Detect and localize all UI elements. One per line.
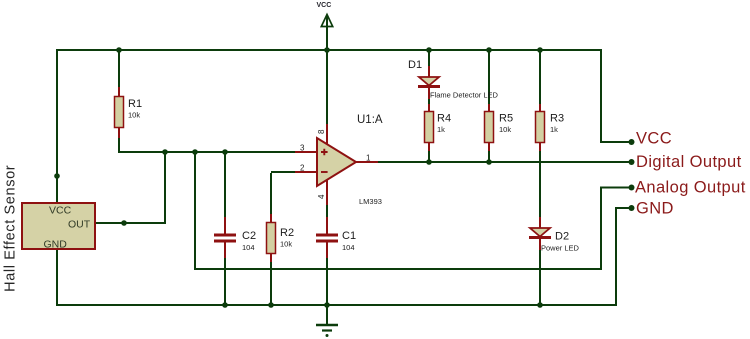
op-amp U1 pin8 lead [326, 124, 328, 150]
svg-text:OUT: OUT [68, 219, 91, 231]
junction node R2/bottom rail [268, 302, 274, 308]
op-amp U1 pin3 stub [295, 151, 318, 153]
svg-text:VCC: VCC [636, 130, 672, 148]
svg-text:D1: D1 [408, 59, 422, 71]
svg-text:Power LED: Power LED [541, 244, 580, 253]
junction node C2/pin3 rail [222, 149, 228, 155]
junction node R1/top rail [116, 47, 122, 53]
junction node C1-gnd/bottom rail [324, 302, 330, 308]
svg-text:R3: R3 [550, 113, 564, 125]
wire ground stem [326, 305, 328, 325]
svg-text:3: 3 [300, 144, 305, 153]
op-amp U1:A body [317, 114, 383, 206]
capacitor C1 [316, 217, 356, 258]
wire R5 bottom to digital run [488, 150, 490, 162]
junction node D1/top rail [426, 47, 432, 53]
junction node OUT riser/pin3 rail [162, 149, 168, 155]
svg-text:C1: C1 [342, 230, 356, 242]
svg-text:1k: 1k [550, 125, 558, 134]
wire D1 cathode to R4 [428, 97, 430, 106]
terminal node Analog Output [629, 185, 635, 191]
op-amp U1 pin1 lead [356, 161, 378, 163]
wire vcc symbol stem [326, 16, 328, 51]
svg-text:GND: GND [636, 200, 674, 218]
wire bottom rail [56, 304, 616, 306]
svg-text:LM393: LM393 [359, 197, 382, 206]
svg-text:8: 8 [317, 129, 326, 134]
wire C1 bottom to rail [326, 257, 328, 305]
capacitor C2 [214, 217, 256, 258]
terminal node Digital Output [629, 159, 635, 165]
junction node C2/bottom rail [222, 302, 228, 308]
ground [316, 325, 338, 337]
wire C2 bottom to rail [224, 257, 226, 305]
resistor R3 [536, 104, 565, 151]
junction node R5/top rail [486, 47, 492, 53]
wire D2 cathode to bottom rail [539, 249, 541, 305]
wire analog leg up to terminal [600, 187, 631, 270]
svg-text:Hall Effect Sensor: Hall Effect Sensor [3, 165, 19, 292]
wire R1 top branch [118, 50, 120, 89]
svg-text:C2: C2 [242, 230, 256, 242]
wire opamp pin4 to C1 [326, 204, 328, 220]
svg-text:4: 4 [317, 194, 326, 199]
wire C2 top from pin3 rail [224, 152, 226, 220]
wire D1 top branch [428, 50, 430, 68]
terminal node VCC [629, 139, 635, 145]
svg-text:1: 1 [366, 154, 371, 163]
op-amp U1 pin4 lead [326, 176, 328, 205]
svg-text:D2: D2 [555, 231, 569, 243]
svg-text:R2: R2 [280, 227, 294, 239]
wire opamp pin8 from rail [326, 50, 328, 125]
wire mid riser pin3 to analog run [194, 152, 601, 269]
junction node R5/digital run [486, 159, 492, 165]
svg-text:104: 104 [342, 243, 355, 252]
wire R2 bottom to rail [270, 261, 272, 305]
wire R3 bottom to D2 [539, 150, 541, 220]
svg-text:R4: R4 [437, 113, 451, 125]
diode D1 [408, 59, 499, 100]
svg-text:1k: 1k [437, 125, 445, 134]
junction node D2/bottom rail [537, 302, 543, 308]
junction node R3/top rail [537, 47, 543, 53]
wire sensor GND down [56, 248, 58, 306]
wire R3 top branch [539, 50, 541, 105]
junction node mid riser/pin3 rail [192, 149, 198, 155]
svg-text:10k: 10k [280, 240, 292, 249]
resistor R5 [485, 104, 514, 151]
wire gnd leg up to terminal [615, 208, 631, 306]
terminal node GND [629, 205, 635, 211]
svg-text:104: 104 [242, 243, 255, 252]
wire pin2 to R2 [271, 172, 296, 216]
junction node left vertical [54, 173, 60, 179]
svg-text:U1:A: U1:A [357, 114, 383, 126]
junction node vcc arrow/top rail [324, 47, 330, 53]
junction node D1-R4/digital run [426, 159, 432, 165]
svg-text:10k: 10k [128, 111, 140, 120]
diode D2 [529, 217, 580, 253]
wire R5 top branch [488, 50, 490, 105]
hall effect sensor box [22, 203, 95, 251]
vcc power symbol [317, 2, 333, 27]
wire top rail [57, 49, 601, 51]
svg-text:R1: R1 [128, 98, 142, 110]
svg-text:10k: 10k [499, 125, 511, 134]
wire R4 bottom to digital run [428, 150, 430, 162]
op-amp U1 pin2 stub [295, 171, 318, 173]
junction node OUT wire [121, 220, 127, 226]
wire sensor OUT to riser [95, 152, 166, 224]
svg-text:Flame Detector LED: Flame Detector LED [430, 91, 499, 100]
wire R1 bottom to pin3 rail [118, 136, 296, 152]
svg-text:2: 2 [300, 164, 305, 173]
svg-text:VCC: VCC [317, 2, 332, 9]
resistor R1 [115, 87, 143, 138]
svg-text:R5: R5 [499, 113, 513, 125]
wire vcc leg from top rail to terminal [600, 49, 631, 142]
svg-text:GND: GND [44, 239, 68, 251]
wire left vertical to sensor VCC [56, 49, 58, 204]
svg-text:Analog Output: Analog Output [635, 179, 746, 197]
resistor R4 [425, 104, 452, 151]
svg-text:VCC: VCC [49, 205, 72, 217]
resistor R2 [267, 214, 295, 262]
svg-text:Digital Output: Digital Output [636, 153, 742, 171]
wire digital output run [378, 161, 631, 163]
